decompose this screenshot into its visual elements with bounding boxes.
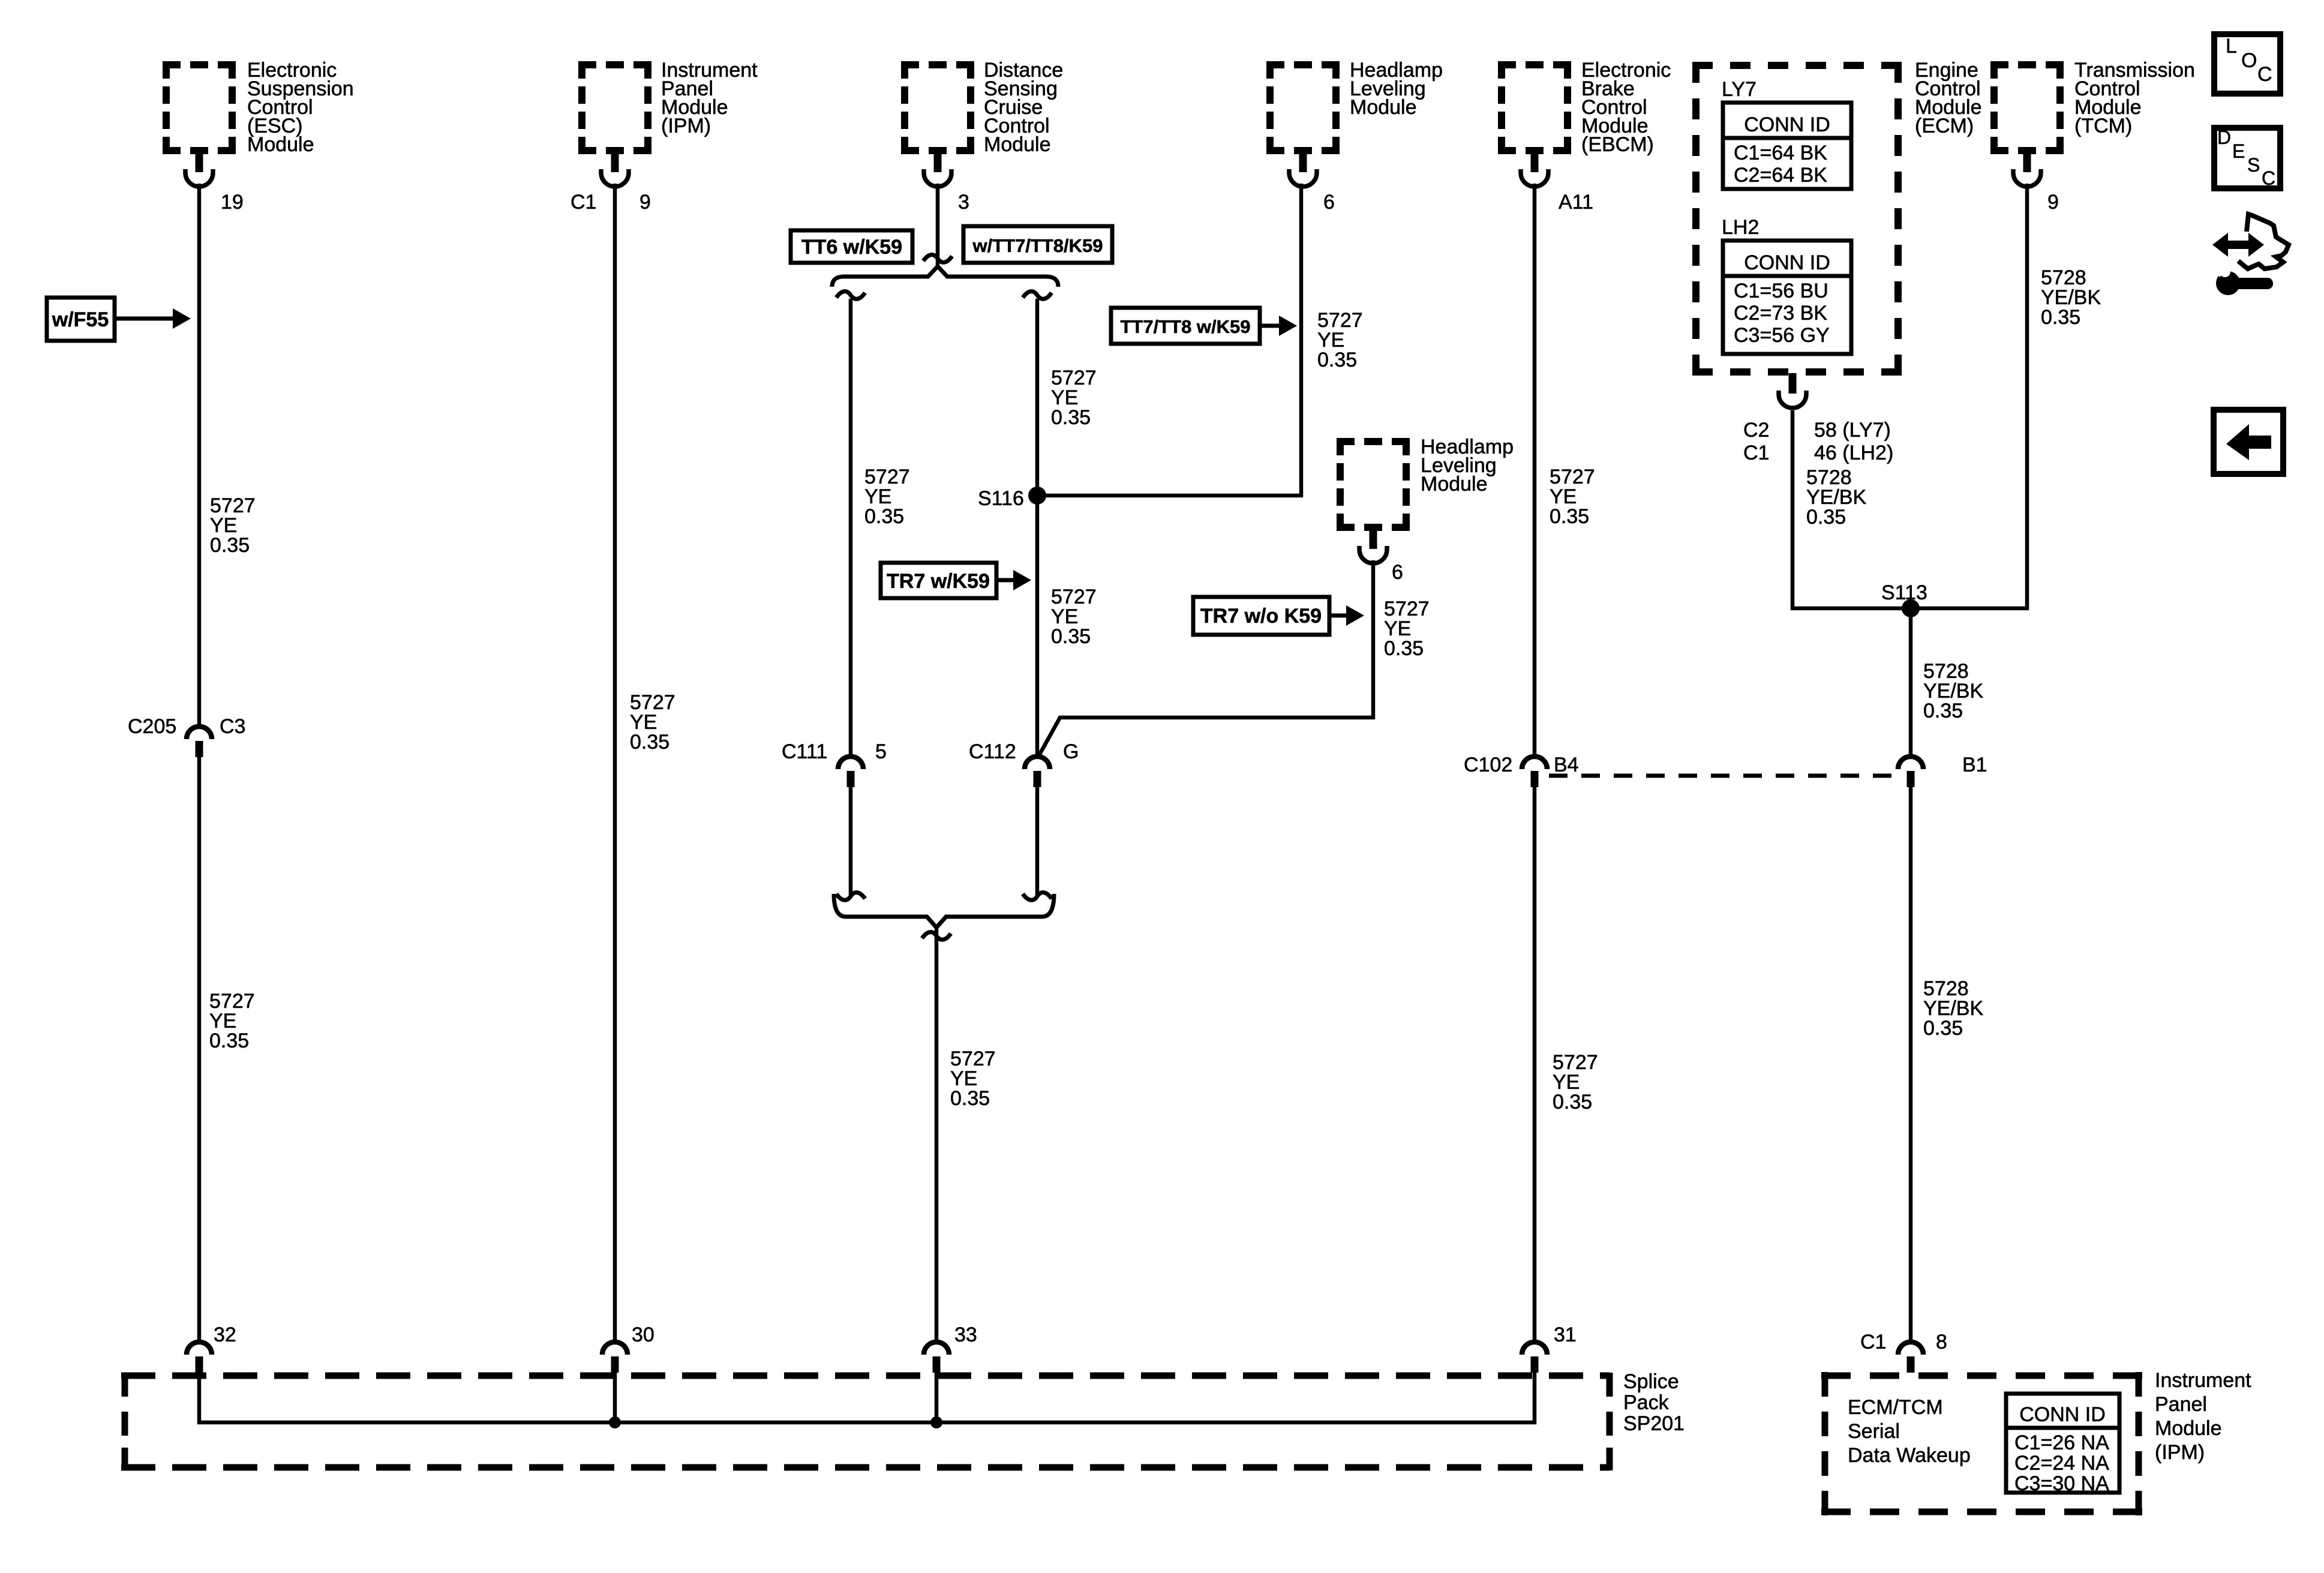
module DSCC dashed box bbox=[901, 59, 1063, 156]
engine option LH2 label bbox=[1722, 216, 1759, 239]
option label box TR7 w/o K59 bbox=[1193, 597, 1364, 635]
svg-text:C2=64 BK: C2=64 BK bbox=[1734, 164, 1827, 187]
svg-text:0.35: 0.35 bbox=[209, 1029, 249, 1052]
module HLM2 dashed box bbox=[1337, 436, 1514, 531]
brace upper (split to C111/C112 branches) bbox=[832, 266, 1058, 287]
connector pin of ECM (C2/C1) bbox=[1779, 373, 1806, 408]
svg-text:L: L bbox=[2226, 35, 2237, 58]
label C112 bbox=[969, 740, 1016, 763]
label 32 bbox=[214, 1323, 236, 1346]
CONN ID table for LY7 bbox=[1723, 103, 1851, 189]
svg-text:TR7 w/K59: TR7 w/K59 bbox=[887, 570, 990, 593]
svg-text:6: 6 bbox=[1323, 191, 1335, 214]
module TCM dashed box bbox=[1990, 59, 2195, 154]
pin 19 (ESC) bbox=[221, 191, 244, 214]
IPM connector C1 pin 8 bbox=[1898, 1342, 1923, 1373]
label 30 bbox=[632, 1323, 654, 1346]
svg-text:S116: S116 bbox=[978, 487, 1024, 510]
label S113 bbox=[1881, 581, 1927, 604]
svg-text:C111: C111 bbox=[782, 740, 827, 763]
dashed in-harness link C102 B4 to B1 bbox=[1549, 774, 1897, 778]
svg-text:ECM/TCM: ECM/TCM bbox=[1848, 1396, 1943, 1419]
label 33 bbox=[954, 1323, 977, 1346]
svg-text:C1: C1 bbox=[571, 191, 596, 214]
wire break squiggle below DSCC pin 3 bbox=[923, 255, 952, 263]
wire branch C112 upper (through S116) bbox=[1035, 299, 1040, 758]
svg-text:LY7: LY7 bbox=[1722, 78, 1756, 101]
in-line connector C112 pin G bbox=[1025, 757, 1050, 787]
wire label 5728 YE/BK 0.35 (ECM) bbox=[1806, 466, 1866, 529]
svg-text:0.35: 0.35 bbox=[630, 731, 669, 754]
wire label 5727 YE 0.35 (HLM1 wire) bbox=[1317, 309, 1363, 371]
label C111 bbox=[782, 740, 827, 763]
svg-text:46 (LH2): 46 (LH2) bbox=[1814, 442, 1893, 464]
legend service icon (double arrow, outline, wrench) bbox=[2212, 214, 2289, 295]
wire label 5727 YE 0.35 (EBCM lower) bbox=[1553, 1051, 1598, 1113]
label G bbox=[1063, 740, 1079, 763]
squiggle top of merged center wire bbox=[922, 932, 951, 940]
option label box TR7 w/K59 bbox=[881, 563, 1031, 598]
svg-text:Module: Module bbox=[2155, 1417, 2222, 1440]
svg-text:C1: C1 bbox=[1743, 442, 1769, 464]
in-line connector B1 bbox=[1898, 757, 1923, 787]
svg-text:Module: Module bbox=[1350, 96, 1417, 119]
junction dot pin30/bus bbox=[609, 1416, 621, 1428]
pin 6 (HLM2) bbox=[1392, 561, 1403, 584]
svg-text:(IPM): (IPM) bbox=[661, 115, 711, 137]
wire label 5727 YE 0.35 (ESC lower) bbox=[209, 990, 255, 1052]
svg-text:TT7/TT8 w/K59: TT7/TT8 w/K59 bbox=[1120, 316, 1250, 337]
ECM connector labels C2/C1 58/46 bbox=[1743, 419, 1893, 464]
svg-text:0.35: 0.35 bbox=[210, 534, 250, 557]
svg-text:C205: C205 bbox=[128, 715, 176, 738]
svg-text:CONN ID: CONN ID bbox=[2019, 1403, 2106, 1426]
in-line connector C111 pin 5 bbox=[838, 757, 863, 787]
label C102 bbox=[1464, 754, 1512, 776]
svg-text:8: 8 bbox=[1936, 1331, 1947, 1353]
connector pin of TCM bbox=[2013, 152, 2041, 187]
svg-text:C2: C2 bbox=[1743, 419, 1769, 442]
svg-text:C112: C112 bbox=[969, 740, 1016, 763]
wire HLM2 pin6 down and left to C112 bbox=[1038, 560, 1373, 757]
svg-text:0.35: 0.35 bbox=[1051, 406, 1091, 429]
svg-text:Instrument: Instrument bbox=[2155, 1369, 2251, 1392]
svg-text:Splice: Splice bbox=[1623, 1370, 1679, 1393]
svg-text:C1: C1 bbox=[1860, 1331, 1886, 1353]
splice pack terminal 31 bbox=[1522, 1342, 1547, 1373]
svg-text:TT6 w/K59: TT6 w/K59 bbox=[801, 236, 902, 259]
legend DESC box bbox=[2214, 127, 2280, 189]
svg-text:6: 6 bbox=[1392, 561, 1403, 584]
connector pin of IPM bbox=[601, 152, 629, 187]
wire label 5727 YE 0.35 (below S116) bbox=[1051, 586, 1097, 648]
svg-text:0.35: 0.35 bbox=[950, 1087, 990, 1110]
svg-text:Module: Module bbox=[984, 133, 1051, 156]
svg-text:32: 32 bbox=[214, 1323, 236, 1346]
svg-text:S: S bbox=[2247, 154, 2260, 176]
svg-text:E: E bbox=[2232, 140, 2245, 162]
wire C205 to splice pack pin 32 bbox=[197, 756, 202, 1344]
splice S116 dot bbox=[1028, 487, 1046, 505]
svg-text:0.35: 0.35 bbox=[1317, 349, 1357, 371]
wire DSCC pin3 to break bbox=[936, 184, 940, 268]
wire branch C111 lower bbox=[849, 786, 853, 895]
svg-text:Data Wakeup: Data Wakeup bbox=[1848, 1444, 1971, 1467]
brace lower (merge of branches) bbox=[834, 894, 1054, 927]
module ECM (Engine Control Module) dashed box bbox=[1692, 62, 1902, 376]
legend LOC box bbox=[2214, 34, 2280, 94]
wire branch C111 upper bbox=[849, 299, 853, 758]
engine option LY7 label bbox=[1722, 78, 1756, 101]
svg-text:9: 9 bbox=[639, 191, 651, 214]
svg-text:0.35: 0.35 bbox=[2041, 306, 2080, 329]
wire label 5727 YE 0.35 (ESC upper) bbox=[210, 494, 256, 557]
option label box w/F55 bbox=[47, 298, 191, 341]
svg-text:58 (LY7): 58 (LY7) bbox=[1814, 419, 1891, 442]
svg-text:31: 31 bbox=[1554, 1323, 1577, 1346]
junction dot pin33/bus bbox=[930, 1416, 942, 1428]
label S116 bbox=[978, 487, 1024, 510]
svg-text:C2=24 NA: C2=24 NA bbox=[2014, 1452, 2109, 1475]
svg-text:(IPM): (IPM) bbox=[2155, 1441, 2205, 1464]
svg-text:C3: C3 bbox=[220, 715, 245, 738]
wire label 5727 YE 0.35 (left branch) bbox=[864, 466, 910, 528]
squiggle top of C111 branch bbox=[836, 292, 865, 299]
wire label 5728 YE/BK 0.35 (B1 lower) bbox=[1923, 977, 1983, 1040]
wire pin30 stub into bus bbox=[613, 1372, 617, 1422]
svg-text:O: O bbox=[2241, 49, 2257, 72]
svg-text:0.35: 0.35 bbox=[1550, 505, 1589, 528]
label C3 bbox=[220, 715, 245, 738]
svg-text:C3=30 NA: C3=30 NA bbox=[2014, 1472, 2109, 1495]
connector C1 label (IPM) bbox=[571, 191, 596, 214]
svg-text:Pack: Pack bbox=[1623, 1391, 1670, 1414]
wire center to splice pack pin 33 bbox=[935, 929, 939, 1344]
svg-text:Serial: Serial bbox=[1848, 1420, 1900, 1443]
in-line connector C102 pin B4 bbox=[1522, 757, 1547, 787]
bottom IPM module name bbox=[2155, 1369, 2251, 1464]
module EBCM dashed box bbox=[1498, 59, 1671, 156]
svg-text:w/TT7/TT8/K59: w/TT7/TT8/K59 bbox=[972, 235, 1103, 256]
svg-text:5: 5 bbox=[875, 740, 887, 763]
module ESC dashed box bbox=[163, 59, 354, 156]
wire S113 down to B1 bbox=[1909, 608, 1913, 758]
svg-text:33: 33 bbox=[954, 1323, 977, 1346]
wire splice pack bus SP201 bbox=[199, 1372, 1535, 1422]
svg-text:0.35: 0.35 bbox=[1923, 1017, 1963, 1040]
wire branch C112 lower bbox=[1035, 786, 1040, 895]
squiggle top of C112 branch bbox=[1023, 292, 1052, 299]
module HLM1 dashed box bbox=[1266, 59, 1443, 154]
wire IPM pin9 to splice pack pin 30 bbox=[613, 184, 617, 1344]
option label box w/TT7/TT8/K59 bbox=[963, 226, 1112, 263]
svg-text:C: C bbox=[2262, 167, 2275, 189]
svg-text:B4: B4 bbox=[1554, 754, 1579, 776]
splice pack terminal 30 bbox=[602, 1342, 627, 1373]
svg-text:CONN ID: CONN ID bbox=[1744, 113, 1830, 136]
svg-text:D: D bbox=[2217, 127, 2231, 148]
label 5 bbox=[875, 740, 887, 763]
connector pin of HLM1 bbox=[1289, 152, 1317, 187]
svg-text:A11: A11 bbox=[1559, 191, 1593, 214]
svg-text:TR7 w/o K59: TR7 w/o K59 bbox=[1200, 605, 1322, 628]
pin A11 (EBCM) bbox=[1559, 191, 1593, 214]
wire label 5727 YE 0.35 (EBCM upper) bbox=[1550, 466, 1595, 528]
wire EBCM A11 to C102-B4 bbox=[1533, 184, 1537, 758]
ECM/TCM Serial Data Wakeup text bbox=[1848, 1396, 1971, 1467]
label B4 bbox=[1554, 754, 1579, 776]
svg-text:0.35: 0.35 bbox=[1923, 700, 1963, 722]
svg-text:0.35: 0.35 bbox=[1806, 506, 1846, 529]
label 8 bbox=[1936, 1331, 1947, 1353]
label C205 bbox=[128, 715, 176, 738]
module IPM dashed box bbox=[578, 59, 758, 154]
label C1 (IPM bottom) bbox=[1860, 1331, 1886, 1353]
splice pack SP201 dashed box bbox=[121, 1373, 1610, 1470]
svg-text:C102: C102 bbox=[1464, 754, 1512, 776]
svg-text:C1=26 NA: C1=26 NA bbox=[2014, 1431, 2109, 1454]
wire B4 to splice pack pin 31 bbox=[1533, 786, 1537, 1344]
svg-text:S113: S113 bbox=[1881, 581, 1927, 604]
squiggle bottom of C111 branch bbox=[836, 893, 865, 900]
splice pack terminal 33 bbox=[924, 1342, 949, 1373]
wire label 5728 YE/BK 0.35 (TCM) bbox=[2041, 266, 2101, 329]
svg-text:0.35: 0.35 bbox=[1553, 1091, 1592, 1113]
svg-text:C1=56 BU: C1=56 BU bbox=[1734, 280, 1828, 302]
svg-text:C3=56 GY: C3=56 GY bbox=[1734, 324, 1830, 347]
wire label 5727 YE 0.35 (right branch upper) bbox=[1051, 367, 1097, 429]
option label box TT7/TT8 w/K59 bbox=[1111, 308, 1297, 344]
svg-text:LH2: LH2 bbox=[1722, 216, 1759, 239]
wire label 5728 YE/BK 0.35 (below S113) bbox=[1923, 660, 1983, 722]
svg-text:SP201: SP201 bbox=[1623, 1412, 1685, 1435]
legend back-arrow box bbox=[2214, 410, 2283, 474]
in-line connector C205/C3 bbox=[187, 727, 212, 757]
svg-text:(TCM): (TCM) bbox=[2074, 115, 2132, 137]
splice pack SP201 name bbox=[1623, 1370, 1685, 1435]
svg-text:0.35: 0.35 bbox=[1051, 625, 1091, 648]
svg-text:3: 3 bbox=[958, 191, 969, 214]
svg-text:Module: Module bbox=[1421, 473, 1488, 496]
CONN ID table for bottom IPM bbox=[2006, 1394, 2119, 1495]
svg-text:19: 19 bbox=[221, 191, 244, 214]
pin 6 (HLM1) bbox=[1323, 191, 1335, 214]
connector pin of ESC bbox=[185, 152, 213, 187]
label B1 bbox=[1962, 754, 1987, 776]
connector pin of DSCC bbox=[924, 152, 951, 187]
CONN ID table for LH2 bbox=[1723, 241, 1851, 354]
svg-text:(EBCM): (EBCM) bbox=[1581, 133, 1654, 156]
wire pin33 stub into bus bbox=[935, 1372, 939, 1422]
pin 9 (TCM) bbox=[2047, 191, 2059, 214]
module IPM (bottom, ECM/TCM Serial Data Wakeup) dashed box bbox=[1821, 1372, 2142, 1515]
svg-text:CONN ID: CONN ID bbox=[1744, 251, 1830, 274]
svg-text:w/F55: w/F55 bbox=[52, 308, 109, 331]
wire ESC pin19 to C205 bbox=[197, 184, 202, 728]
ECM module name text bbox=[1915, 59, 1982, 137]
wire B1 down to IPM C1 pin8 bbox=[1909, 786, 1913, 1344]
label 31 bbox=[1554, 1323, 1577, 1346]
svg-text:9: 9 bbox=[2047, 191, 2059, 214]
svg-text:Panel: Panel bbox=[2155, 1393, 2207, 1416]
wire label 5727 YE 0.35 (HLM2 wire) bbox=[1384, 598, 1430, 660]
pin 9 (IPM) bbox=[639, 191, 651, 214]
wire label 5727 YE 0.35 (IPM) bbox=[630, 691, 675, 754]
wire S116 to HLM1 pin 6 bbox=[1037, 184, 1301, 496]
svg-text:30: 30 bbox=[632, 1323, 654, 1346]
svg-text:C: C bbox=[2257, 63, 2272, 86]
squiggle bottom of C112 branch bbox=[1023, 893, 1052, 900]
wire label 5727 YE 0.35 (center lower) bbox=[950, 1047, 996, 1110]
connector pin of EBCM bbox=[1521, 152, 1548, 187]
svg-text:G: G bbox=[1063, 740, 1079, 763]
svg-text:C1=64 BK: C1=64 BK bbox=[1734, 142, 1827, 164]
wire TCM pin9 down to S113 rail bbox=[1909, 184, 2027, 608]
svg-text:Module: Module bbox=[247, 133, 314, 156]
svg-text:B1: B1 bbox=[1962, 754, 1987, 776]
option label box TT6 w/K59 bbox=[791, 230, 912, 263]
pin 3 (DSCC) bbox=[958, 191, 969, 214]
svg-text:0.35: 0.35 bbox=[864, 505, 904, 528]
svg-text:(ECM): (ECM) bbox=[1915, 115, 1974, 137]
connector pin of HLM2 bbox=[1359, 529, 1387, 563]
splice S113 dot bbox=[1902, 599, 1920, 617]
svg-text:C2=73 BK: C2=73 BK bbox=[1734, 302, 1827, 325]
svg-text:0.35: 0.35 bbox=[1384, 637, 1424, 660]
splice pack terminal 32 bbox=[187, 1342, 212, 1373]
wire ECM C2/C1 down to S113 rail bbox=[1792, 410, 1912, 608]
